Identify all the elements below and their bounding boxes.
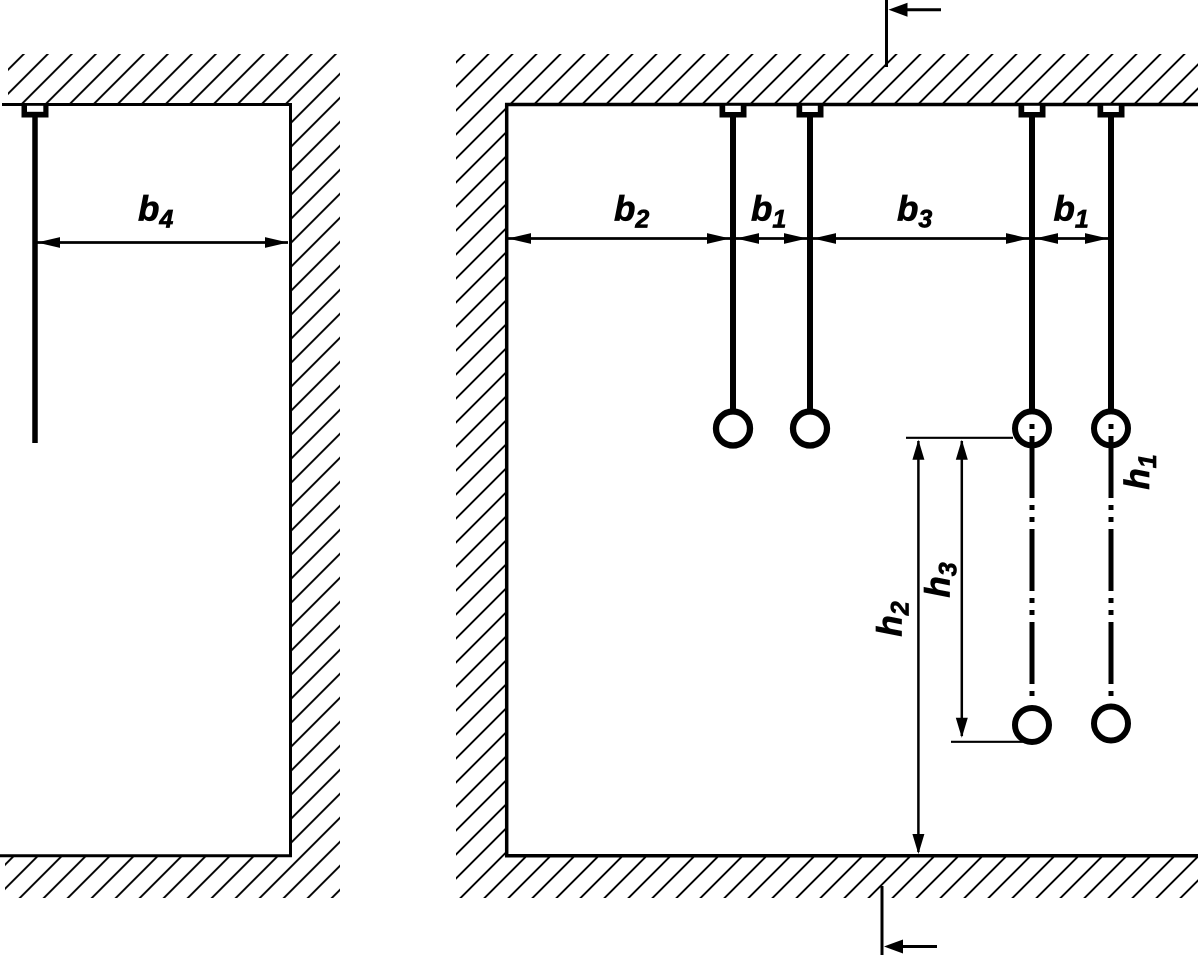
right figure: ceiling line [505, 103, 1198, 107]
dimension h3: top arrowhead [956, 440, 968, 460]
left figure: wall line [289, 103, 292, 857]
h extension line (top, at upper ball) [906, 437, 1013, 439]
left figure: hatched ceiling band [8, 54, 340, 103]
left figure: hatched right wall band [289, 103, 340, 898]
right figure: hatched floor band [456, 856, 1198, 898]
rod 3: upper ball circle [1015, 411, 1049, 445]
left figure: floor line [0, 854, 292, 857]
rod 4: hanging rod [1108, 117, 1114, 409]
rod 4: lower ball circle [1094, 707, 1128, 741]
dimension b3: line [813, 237, 1029, 240]
dimension b1 (second): right arrowhead [1085, 233, 1108, 244]
dimension b1 (first): line [736, 237, 807, 240]
dimension b1 (second): line [1035, 237, 1108, 240]
dimension h3: bottom arrowhead [956, 718, 968, 738]
top section marker: arrowhead [889, 3, 908, 17]
rod 2: ball end circle [793, 412, 827, 446]
rod 4: phantom travel line (dash-dot-dot) [1109, 424, 1114, 701]
top section marker: vertical line [885, 0, 888, 67]
dimension h2: top arrowhead [912, 440, 924, 460]
top section marker: arrow shaft [896, 8, 941, 11]
rod 3: phantom travel line (dash-dot-dot) [1030, 424, 1035, 703]
dimension b3: right arrowhead [1006, 233, 1029, 244]
dimension b2: left arrowhead [508, 233, 531, 244]
right figure: hatched ceiling band [456, 54, 1198, 103]
right figure: hatched left wall band [456, 103, 505, 856]
bottom section marker: vertical line [881, 886, 884, 955]
dimension h2: bottom arrowhead [912, 834, 924, 854]
dimension b4: line [37, 241, 288, 244]
rod 2: hanging rod [807, 117, 813, 409]
dimension b1 (first): right arrowhead [784, 233, 807, 244]
dimension b3: left arrowhead [813, 233, 836, 244]
rod 3: lower ball circle [1015, 708, 1049, 742]
left figure: hatched floor band [5, 856, 289, 898]
rod 2: ceiling mount bracket [797, 103, 824, 118]
dimension b2: line [508, 237, 730, 240]
right figure: floor line [505, 854, 1198, 858]
dimension b1 (second): left arrowhead [1035, 233, 1058, 244]
bottom section marker: arrowhead [884, 940, 903, 954]
dimension b4: left arrowhead [37, 237, 60, 248]
dimension b2: right arrowhead [707, 233, 730, 244]
rod 1: hanging rod [730, 117, 736, 409]
dimension h2: vertical line [917, 441, 920, 852]
left figure: ceiling line [2, 103, 292, 106]
dimension b1 (first): left arrowhead [736, 233, 759, 244]
dimension b4: right arrowhead [265, 237, 288, 248]
rod 3: ceiling mount bracket [1019, 103, 1046, 118]
rod 1: ceiling mount bracket [720, 103, 747, 118]
rod 4: ceiling mount bracket [1098, 103, 1125, 118]
right figure: wall line [505, 103, 509, 857]
bottom section marker: arrow shaft [892, 945, 937, 948]
left figure: hanging rod [32, 117, 38, 443]
dimension h3: vertical line [961, 441, 964, 736]
left figure: ceiling mount bracket [22, 103, 49, 118]
rod 1: ball end circle [716, 412, 750, 446]
rod 4: upper ball circle [1094, 411, 1128, 445]
h3 extension line (bottom, at lower ball) [951, 741, 1030, 743]
rod 3: hanging rod [1029, 117, 1035, 409]
